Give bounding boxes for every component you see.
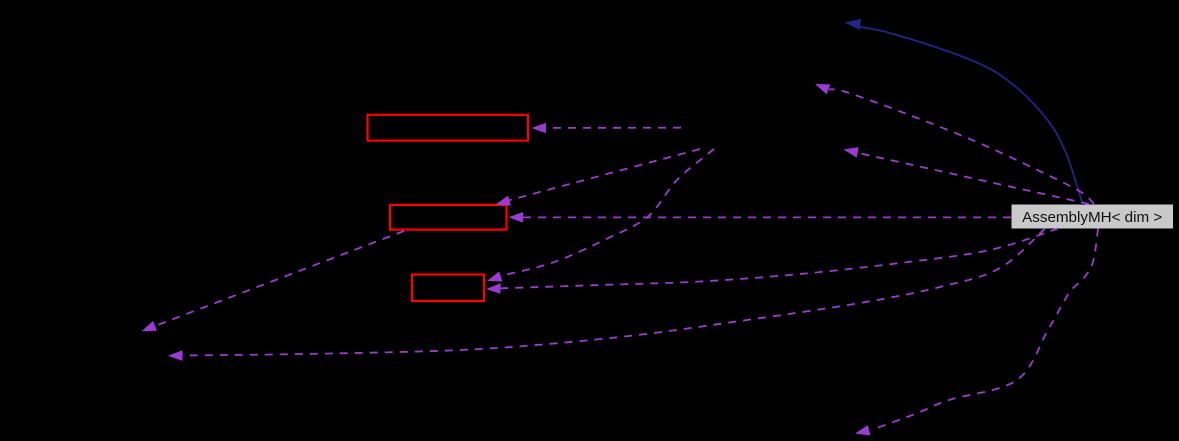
edge E5: dashed from AssemblyMH bottom to box3 right edge (lower arrow) (486, 229, 1058, 294)
svg-text:AssemblyMH< dim >: AssemblyMH< dim > (1022, 209, 1162, 226)
node AssemblyMH< dim > (current class, grey) (1012, 205, 1174, 229)
edge E7: big dashed curve from AssemblyMH bottom to arrow at bottom (855, 229, 1098, 436)
edge E4: dashed horizontal from AssemblyMH to box2 right edge (509, 212, 1012, 223)
edge E9: dashed from hidden node to box2 top-right corner (496, 149, 701, 206)
node box1 (truncated red node, label hidden) (368, 115, 529, 141)
node box2 (truncated red node, label hidden) (390, 205, 507, 230)
edge E1: blue inheritance curve from AssemblyMH to hidden node top-left (845, 19, 1083, 205)
edge E10: dashed curve from hidden node to box3 right edge (upper arrow) (487, 149, 714, 282)
edge E3: dashed to hidden node (arrow at 843,150) (844, 147, 1090, 204)
edge E8: dashed horizontal from hidden node to box1 right edge (532, 123, 682, 134)
edge E11: dashed from box2 bottom-left corner to arrow at left (142, 231, 404, 331)
edge E2: dashed to hidden node (arrow at 815,84) (815, 84, 1094, 204)
edge E6: long dashed curve from AssemblyMH bottom to arrow at lower-left (168, 229, 1045, 361)
node box3 (truncated red node, label hidden) (412, 275, 484, 302)
